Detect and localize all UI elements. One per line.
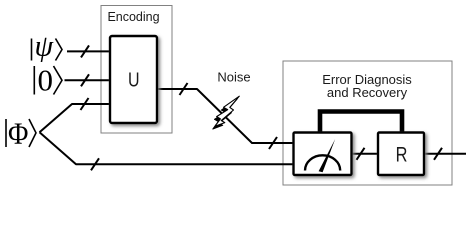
svg-text:R: R <box>396 142 408 165</box>
svg-text:Encoding: Encoding <box>107 10 159 24</box>
Error Diagnosis and Recovery outer box <box>283 61 452 185</box>
U gate box <box>110 36 157 123</box>
R gate box <box>378 133 424 176</box>
wire zero input <box>65 79 112 81</box>
ket phi <box>6 117 36 151</box>
slash on psi wire <box>81 45 89 57</box>
wire U output to noise to meter <box>156 89 294 143</box>
meter box <box>294 133 352 176</box>
meter needle <box>319 139 336 172</box>
thick classical wire meter to R <box>320 112 402 134</box>
svg-text:and Recovery: and Recovery <box>327 85 408 100</box>
svg-text:Φ: Φ <box>8 117 28 151</box>
wire meter to R <box>351 153 379 155</box>
slash on bottom wire <box>91 158 99 170</box>
ket psi <box>32 30 63 63</box>
svg-text:Noise: Noise <box>217 70 250 85</box>
slash on post-noise wire <box>269 137 277 149</box>
wire R output <box>423 153 466 155</box>
slash on meter-R wire <box>357 148 365 160</box>
wire phi lower branch / bottom bus <box>40 132 295 164</box>
slash on R output wire <box>434 148 442 160</box>
ket zero <box>34 63 62 98</box>
Encoding outer box <box>101 6 172 134</box>
svg-text:0: 0 <box>38 63 54 98</box>
meter arc <box>305 155 340 170</box>
wire psi input <box>67 50 111 52</box>
noise lightning bolt black shadow copy <box>213 99 237 129</box>
svg-text:U: U <box>128 68 140 91</box>
svg-text:ψ: ψ <box>35 30 55 63</box>
slash on phi upper wire <box>81 98 89 110</box>
noise lightning bolt (white outlined) <box>215 96 239 126</box>
wire phi upper branch <box>40 104 112 132</box>
slash on U output wire <box>180 83 188 95</box>
slash on zero wire <box>81 74 89 86</box>
